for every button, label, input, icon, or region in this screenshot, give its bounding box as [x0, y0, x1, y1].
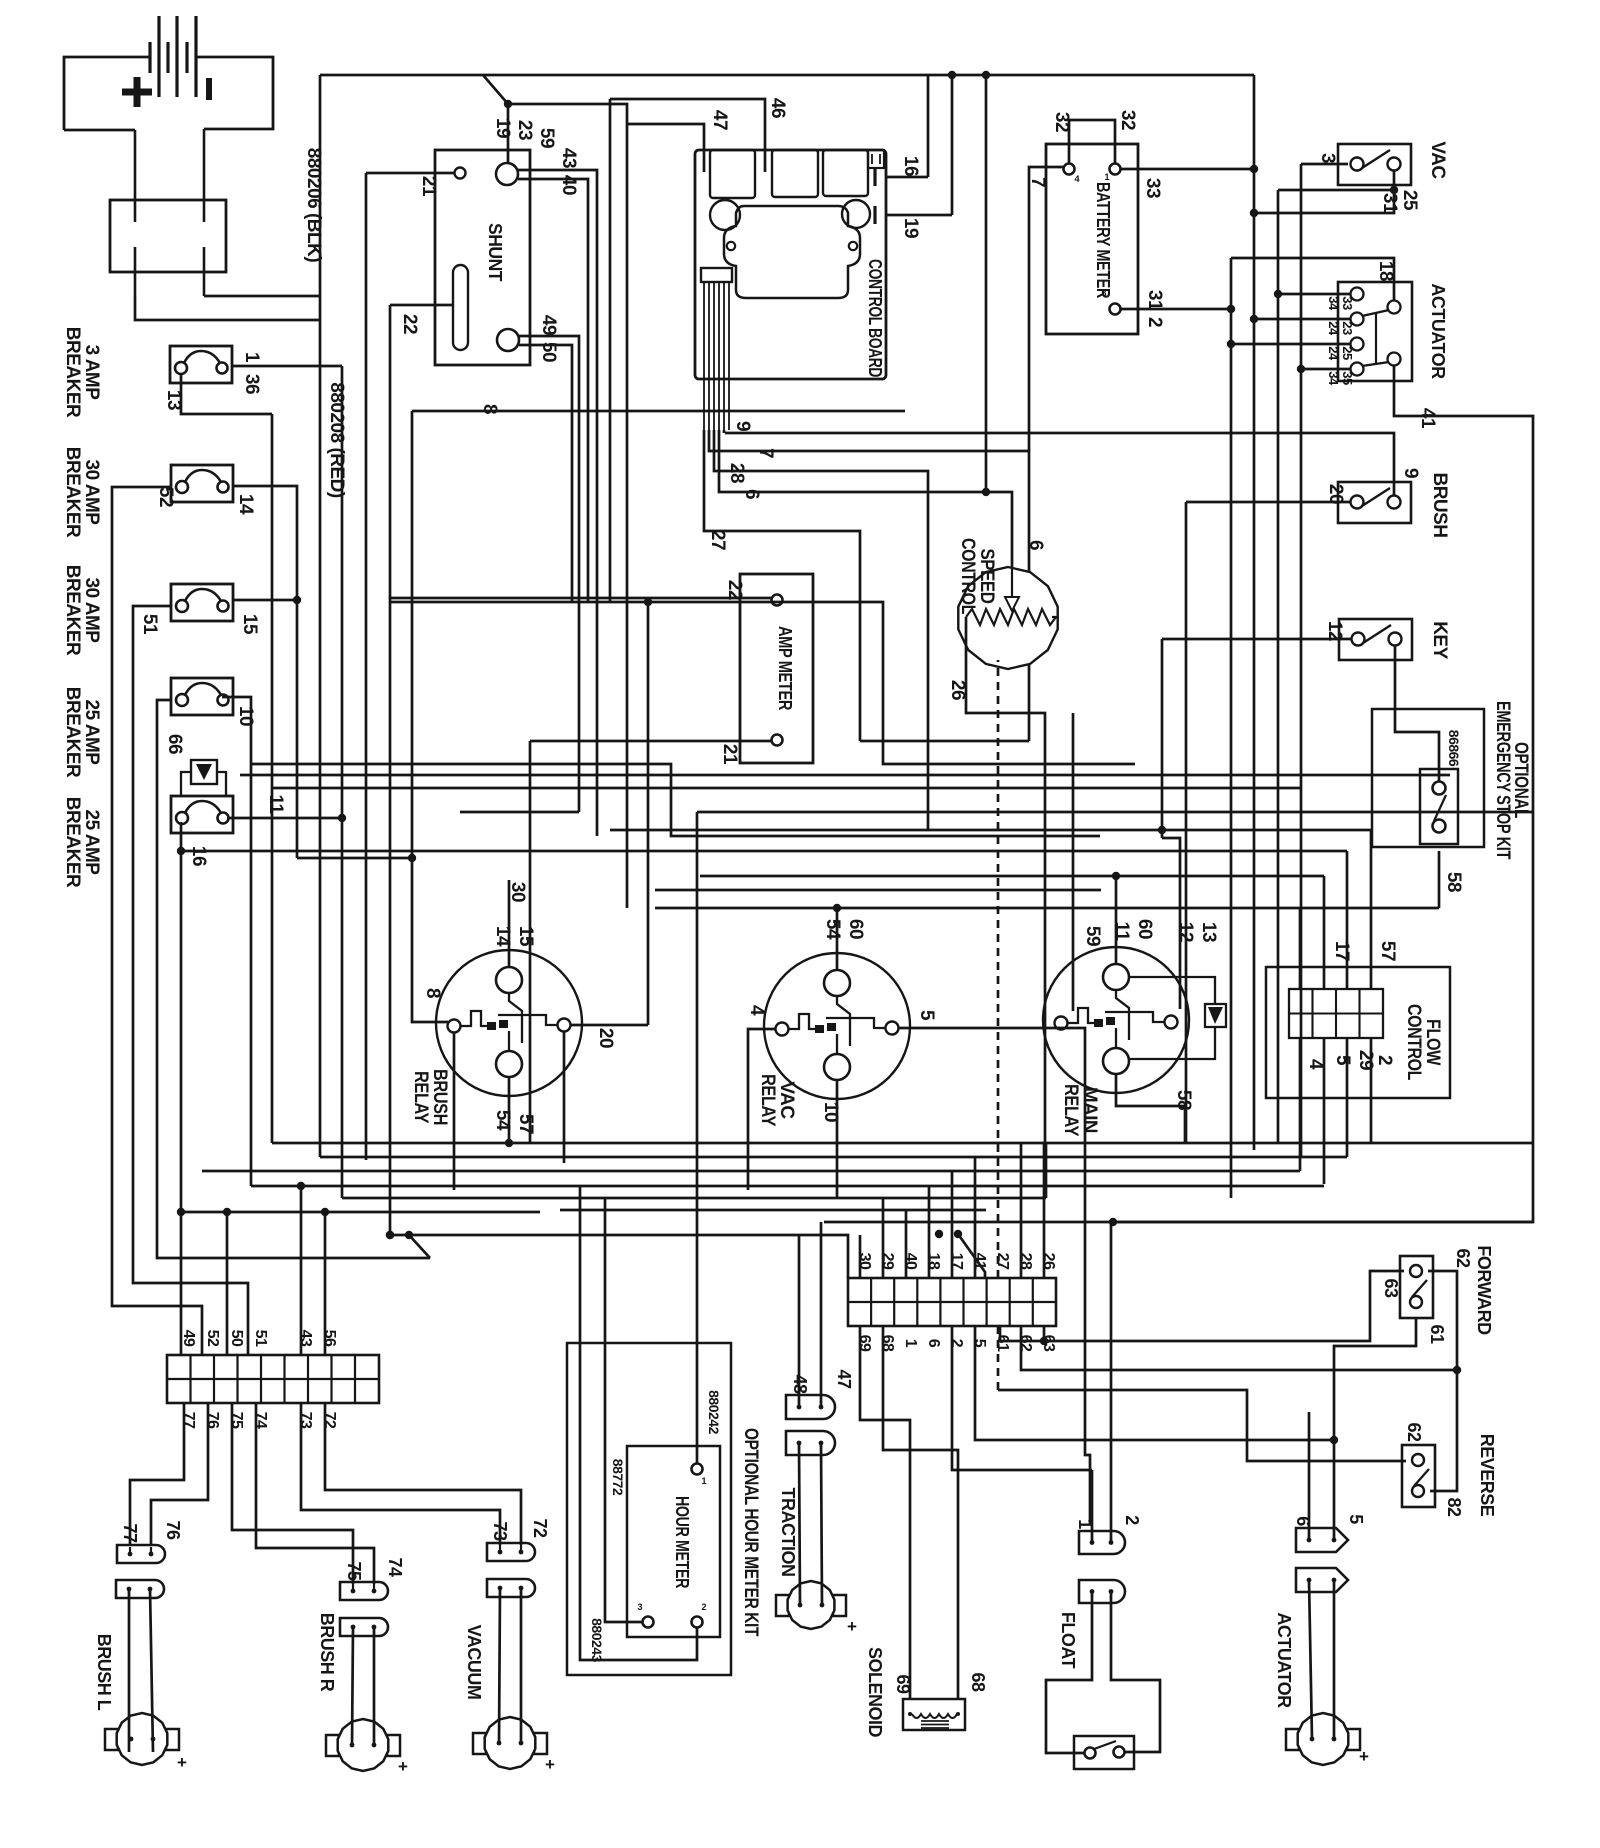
battery B1	[64, 16, 273, 130]
junction 50	[223, 1208, 231, 1216]
wire 59 into main relay left	[1072, 713, 1075, 1011]
svg-text:22: 22	[399, 314, 420, 334]
junction act1	[1274, 290, 1282, 298]
wire 19 riser	[951, 75, 954, 215]
wire 27 (ribbon)	[704, 430, 860, 741]
svg-text:3: 3	[637, 1602, 642, 1612]
label battery +	[122, 77, 152, 107]
float connector P5 upper	[1079, 1531, 1125, 1554]
svg-text:34: 34	[1326, 296, 1341, 311]
svg-text:23: 23	[1340, 321, 1355, 335]
actuator motor MT2	[1286, 1713, 1360, 1765]
wire row 921	[508, 920, 511, 923]
wire 43 feed	[300, 1186, 303, 1355]
wire 11 (breaker)	[227, 817, 342, 820]
wire TB2 col risers	[859, 1235, 862, 1278]
wire diag tb2	[958, 1234, 985, 1278]
brush L connector P1 lower	[116, 1580, 164, 1598]
wire 51 drop	[133, 606, 248, 1355]
wire 31 2	[1121, 308, 1231, 311]
wire 2 to float	[1110, 1222, 1113, 1542]
svg-text:SPEED: SPEED	[976, 549, 997, 604]
wire 43/40 from shunt	[518, 170, 597, 836]
wire 12/13 into main relay right	[1162, 838, 1180, 1009]
wire 50 feed	[226, 1212, 229, 1355]
wire actuator pin4	[1301, 368, 1350, 371]
svg-text:60: 60	[1134, 919, 1155, 939]
svg-text:27: 27	[994, 1253, 1011, 1270]
junction solenoid bus	[935, 1230, 943, 1238]
svg-text:54: 54	[822, 919, 843, 940]
svg-text:58: 58	[1443, 872, 1464, 892]
wire 15	[232, 599, 297, 602]
wire 47 feed	[820, 1222, 823, 1407]
wire row 1157	[320, 1156, 1347, 1159]
svg-text:59: 59	[1082, 926, 1103, 946]
svg-text:33: 33	[1142, 178, 1163, 198]
junction main top	[1112, 872, 1120, 880]
wire row 741 east	[860, 740, 1029, 743]
svg-text:68: 68	[968, 1672, 988, 1692]
junction 14/15	[293, 596, 301, 604]
svg-text:50: 50	[228, 1330, 245, 1347]
svg-text:HOUR METER: HOUR METER	[672, 1496, 692, 1588]
hour meter wires	[696, 1343, 699, 1463]
svg-text:+: +	[177, 1753, 187, 1772]
junction at shunt drop	[504, 100, 512, 108]
svg-text:BREAKER: BREAKER	[62, 447, 83, 538]
svg-text:MAIN: MAIN	[1079, 1087, 1100, 1133]
wire hour meter riser	[696, 812, 699, 1343]
wire trunk 880208 red	[319, 296, 322, 1157]
brush R motor MB2	[326, 1719, 400, 1771]
svg-text:47: 47	[834, 1369, 854, 1389]
wire row 1210	[560, 1209, 986, 1212]
wire 9 (ribbon)	[723, 430, 726, 433]
svg-text:BREAKER: BREAKER	[62, 687, 83, 778]
svg-text:FLOW: FLOW	[1422, 1019, 1443, 1065]
svg-text:21: 21	[719, 744, 740, 765]
wire trunk 1186	[1185, 502, 1188, 1143]
wire reverse feed 61net	[998, 1390, 1406, 1461]
wire row 830	[610, 829, 1371, 832]
svg-text:49: 49	[180, 1330, 197, 1347]
actuator connector P6 upper	[1296, 1528, 1348, 1552]
svg-text:24: 24	[1326, 346, 1341, 361]
svg-text:OPTIONAL HOUR METER KIT: OPTIONAL HOUR METER KIT	[740, 1428, 761, 1637]
wire trunk 13 net	[271, 414, 274, 1143]
wire diag 1235	[409, 1235, 430, 1258]
svg-text:11: 11	[265, 794, 286, 814]
circuit breaker CB4 25A	[171, 678, 233, 715]
svg-text:VAC: VAC	[1427, 141, 1448, 179]
svg-text:EMERGENCY STOP KIT: EMERGENCY STOP KIT	[1492, 701, 1513, 860]
battery meter M1	[1046, 144, 1138, 334]
svg-text:2: 2	[1374, 1055, 1395, 1065]
wire trunk 1231	[1230, 258, 1233, 1198]
wire 41	[1113, 366, 1533, 1222]
wire 40	[518, 179, 588, 602]
wire dashed 61 segment	[997, 1326, 1000, 1390]
wire 20 riser	[647, 602, 650, 1025]
svg-text:16: 16	[900, 156, 921, 176]
wire 8 into brush relay	[412, 411, 448, 1022]
svg-text:BRUSH R: BRUSH R	[317, 1613, 337, 1692]
svg-text:68: 68	[879, 1335, 896, 1352]
wire 1 to float	[1091, 1470, 1094, 1542]
terminal strip TB2	[848, 1278, 1056, 1326]
main relay K3	[1043, 947, 1226, 1093]
wire TB2 63 drop	[1043, 1326, 1046, 1341]
svg-text:+: +	[847, 1617, 857, 1636]
forward switch S5	[1400, 1256, 1433, 1318]
svg-text:1: 1	[902, 1339, 919, 1348]
terminal strip TB1	[167, 1355, 379, 1403]
svg-text:8: 8	[422, 988, 443, 998]
svg-text:51: 51	[252, 1330, 269, 1347]
brush L motor MB1	[105, 1713, 179, 1765]
svg-text:RELAY: RELAY	[1060, 1084, 1081, 1137]
svg-text:49: 49	[538, 315, 559, 335]
svg-text:61: 61	[994, 1335, 1011, 1352]
junction 62	[1453, 1366, 1461, 1374]
svg-text:21: 21	[418, 176, 439, 197]
wire 6 riser	[985, 75, 988, 492]
svg-text:25 AMP: 25 AMP	[81, 810, 102, 876]
float connector P5 lower	[1079, 1580, 1125, 1603]
wire battery negative to trunk 880206	[204, 295, 320, 298]
svg-text:19: 19	[900, 218, 921, 238]
svg-text:75: 75	[228, 1412, 245, 1429]
svg-text:BRUSH: BRUSH	[429, 1069, 450, 1125]
svg-text:BRUSH: BRUSH	[1429, 472, 1450, 537]
svg-text:25 AMP: 25 AMP	[81, 700, 102, 766]
wire row 764 jog	[251, 764, 1100, 836]
svg-text:BREAKER: BREAKER	[62, 565, 83, 656]
vacuum motor wires	[499, 1588, 500, 1743]
control board U1	[695, 150, 886, 379]
svg-text:6: 6	[741, 489, 762, 499]
wire trunk 3 net	[1300, 164, 1303, 1157]
speed control R2	[958, 567, 1057, 669]
svg-text:CONTROL: CONTROL	[1403, 1004, 1424, 1081]
traction motor wires	[799, 1443, 800, 1605]
svg-text:18: 18	[925, 1253, 942, 1270]
wire 16 drop	[180, 822, 183, 1355]
wire 7	[1029, 167, 1063, 741]
svg-text:25: 25	[1399, 190, 1420, 211]
wire 72	[325, 1403, 521, 1545]
svg-text:1: 1	[701, 1476, 706, 1486]
wire trunk 1073 upper	[1072, 712, 1075, 715]
svg-text:72: 72	[321, 1412, 338, 1429]
wire 30/15 into brush relay top	[508, 880, 511, 967]
svg-text:2: 2	[948, 1339, 965, 1348]
wire 73	[301, 1403, 500, 1545]
wire trunk 366	[365, 173, 368, 1160]
svg-text:29: 29	[879, 1253, 896, 1270]
brush switch S3	[1338, 482, 1411, 523]
actuator motor wires	[1309, 1580, 1312, 1739]
pin stub 16	[873, 168, 876, 186]
wire 63 to forward	[1000, 1271, 1404, 1341]
svg-text:KEY: KEY	[1429, 621, 1450, 659]
diode D1 across CB5	[181, 760, 226, 796]
wire row 1341	[999, 1326, 1002, 1341]
wire 5	[898, 1028, 1090, 1524]
svg-text:BATTERY METER: BATTERY METER	[1093, 182, 1113, 298]
wire row 1186	[251, 1185, 1324, 1188]
wire 5 feed	[975, 1326, 1334, 1540]
wire 74	[256, 1403, 374, 1584]
svg-text:59: 59	[536, 128, 557, 148]
flow control bottom wires	[1299, 1038, 1302, 1171]
actuator connector P6 lower	[1296, 1568, 1348, 1592]
svg-text:9: 9	[1400, 468, 1421, 478]
optional emergency stop kit	[1372, 709, 1484, 847]
wire row 775	[240, 774, 1450, 777]
junction act3	[1227, 340, 1235, 348]
wire 4	[748, 1029, 776, 1190]
svg-text:RELAY: RELAY	[410, 1071, 431, 1124]
svg-text:27: 27	[707, 530, 728, 550]
wire 49/50 from shunt	[519, 336, 579, 812]
junction 63	[1040, 1337, 1048, 1345]
svg-text:41: 41	[1417, 408, 1438, 429]
wire row 1143	[272, 1142, 1534, 1145]
svg-text:77: 77	[180, 1412, 197, 1429]
traction connector P7 upper	[786, 1395, 835, 1419]
svg-text:6: 6	[925, 1339, 942, 1348]
wire row 812 right	[697, 811, 1534, 814]
wire 62 link	[1428, 1271, 1457, 1491]
svg-text:880242: 880242	[706, 1390, 722, 1434]
junction solenoid bus2	[954, 1230, 962, 1238]
svg-text:13: 13	[1198, 922, 1219, 942]
brush R motor wires	[352, 1627, 353, 1745]
svg-text:76: 76	[204, 1412, 221, 1429]
svg-text:1: 1	[1104, 172, 1109, 182]
wire trunk 530	[529, 741, 532, 1143]
wire main relay top	[1115, 876, 1118, 964]
svg-text:8: 8	[479, 404, 500, 414]
pin stub 19	[873, 206, 876, 224]
svg-text:20: 20	[595, 1028, 616, 1048]
svg-text:+: +	[1359, 1747, 1369, 1766]
wire 20	[1186, 501, 1351, 504]
svg-text:40: 40	[902, 1253, 919, 1270]
wire 32 loop	[1069, 120, 1115, 163]
junction pin4/3	[1297, 365, 1305, 373]
vacuum connector P3 lower	[487, 1579, 535, 1597]
wire 6 feed	[1308, 1412, 1311, 1540]
svg-text:+: +	[545, 1755, 555, 1774]
wire 28 riser	[1020, 1143, 1023, 1278]
vacuum motor MV1	[473, 1717, 547, 1769]
svg-text:+: +	[398, 1757, 408, 1776]
brush L motor wires	[128, 1589, 131, 1752]
wire TB2 62 drop	[1021, 1326, 1457, 1370]
svg-text:SOLENOID: SOLENOID	[865, 1647, 885, 1738]
junction 43	[297, 1182, 305, 1190]
wire float feed 1	[952, 1326, 1092, 1470]
wire row 851	[181, 850, 1347, 853]
svg-text:43: 43	[558, 148, 579, 168]
svg-text:60: 60	[845, 919, 866, 939]
junction 56	[321, 1208, 329, 1216]
circuit breaker CB5 25A	[171, 796, 233, 833]
wire actuator pin3	[1231, 343, 1350, 346]
wire 48 feed	[798, 1235, 801, 1407]
wire 6 wiper	[986, 492, 1012, 567]
wire 13	[181, 374, 272, 414]
wire 22 from shunt slot	[390, 304, 453, 307]
wire 21 from shunt	[366, 172, 455, 175]
junction 31	[1250, 209, 1258, 217]
svg-text:61: 61	[1427, 1324, 1447, 1344]
junction 33	[1250, 165, 1258, 173]
junction 16 bus	[948, 71, 956, 79]
brush R connector P2 upper	[340, 1582, 388, 1600]
wire row 858	[297, 857, 412, 860]
svg-text:880243: 880243	[589, 1618, 605, 1662]
junction brush relay bottom	[505, 1139, 513, 1147]
battery connector J1	[110, 129, 226, 296]
svg-text:76: 76	[163, 1520, 183, 1540]
junction 6 bus	[982, 71, 990, 79]
wire shunt top right	[508, 104, 627, 908]
svg-text:5: 5	[1332, 1055, 1353, 1066]
svg-text:TRACTION: TRACTION	[778, 1488, 798, 1577]
svg-text:5: 5	[1346, 1514, 1366, 1524]
junction 61/5	[1330, 1436, 1338, 1444]
svg-text:73: 73	[297, 1412, 314, 1429]
svg-text:31: 31	[1379, 193, 1400, 214]
svg-text:VAC: VAC	[776, 1081, 797, 1119]
wire 66 drop	[157, 700, 430, 1258]
wire 6 (ribbon)	[719, 430, 986, 492]
wire 69	[860, 1326, 910, 1699]
wire 8 row	[412, 410, 905, 413]
svg-text:36: 36	[241, 374, 262, 394]
wire 21 to amp meter	[530, 740, 771, 743]
svg-text:BRUSH L: BRUSH L	[94, 1634, 114, 1711]
wire row 908	[655, 907, 1439, 910]
svg-text:4: 4	[1074, 174, 1079, 184]
circuit breaker CB2 30A	[171, 465, 233, 502]
svg-text:880208 (RED): 880208 (RED)	[326, 382, 347, 498]
junction 16 row851	[177, 847, 185, 855]
svg-text:3: 3	[1317, 153, 1338, 163]
svg-text:VACUUM: VACUUM	[464, 1625, 484, 1700]
svg-text:16: 16	[188, 846, 209, 866]
wire row 1235	[390, 1235, 848, 1278]
junction 1235	[405, 1231, 413, 1239]
wire 12 riser	[1161, 639, 1164, 838]
svg-text:BREAKER: BREAKER	[62, 797, 83, 888]
svg-text:57: 57	[1377, 941, 1398, 961]
junction 20	[644, 598, 652, 606]
circuit breaker CB1 3A	[170, 346, 232, 383]
vac switch S1	[1338, 144, 1411, 185]
junction 11/36	[338, 814, 346, 822]
svg-text:RELAY: RELAY	[757, 1074, 778, 1127]
wire trunk 880206	[319, 75, 322, 296]
junction float 2	[1109, 1218, 1117, 1226]
wire 25	[1278, 189, 1394, 192]
svg-text:24: 24	[1326, 321, 1341, 336]
wire top bus	[320, 74, 1254, 77]
svg-text:56: 56	[321, 1330, 338, 1347]
svg-text:2: 2	[701, 1602, 706, 1612]
svg-text:52: 52	[204, 1330, 221, 1347]
wire 36 to trunk	[232, 365, 342, 368]
traction motor MT1	[776, 1581, 846, 1629]
wire vac relay top	[836, 908, 839, 970]
junction 16/49	[177, 1208, 185, 1216]
wire 10	[222, 697, 251, 1186]
wire dashed 27 riser	[997, 660, 1000, 1278]
junction 8/858	[408, 854, 416, 862]
wire 12	[1162, 638, 1352, 641]
wire vac relay bottom	[836, 1080, 839, 1198]
amp meter M2	[740, 574, 813, 763]
optional hour meter kit	[567, 1343, 731, 1675]
svg-text:3: 3	[1101, 288, 1106, 298]
svg-text:43: 43	[297, 1330, 314, 1347]
svg-text:17: 17	[948, 1253, 965, 1270]
wire trunk 1278	[1277, 190, 1280, 1143]
svg-text:69: 69	[856, 1335, 873, 1352]
vac relay K2	[764, 953, 910, 1099]
junction vac top	[833, 904, 841, 912]
svg-text:3 AMP: 3 AMP	[81, 345, 102, 401]
wire row 876	[700, 875, 1324, 878]
wire row 620	[365, 619, 368, 622]
wire 18	[1231, 258, 1394, 300]
wire top bus right corner	[1253, 75, 1256, 213]
svg-text:34: 34	[1326, 371, 1341, 386]
solenoid L1	[903, 1699, 965, 1730]
junction 6	[982, 488, 990, 496]
svg-text:57: 57	[515, 1114, 536, 1134]
wire 7 (ribbon)	[709, 430, 1029, 451]
wire 50	[519, 345, 572, 602]
svg-text:1: 1	[241, 352, 262, 363]
svg-text:86866: 86866	[1446, 730, 1462, 767]
svg-text:SHUNT: SHUNT	[485, 223, 505, 281]
svg-text:62: 62	[1404, 1422, 1424, 1442]
brush R connector P2 lower	[340, 1618, 388, 1636]
wire row 1171	[202, 1170, 1300, 1173]
circuit breaker CB3 30A	[171, 584, 233, 621]
junction 1235b	[386, 1231, 394, 1239]
junction row830	[1158, 826, 1166, 834]
wire 52 drop	[112, 487, 202, 1355]
wire 77	[130, 1403, 184, 1546]
svg-text:26: 26	[1040, 1253, 1057, 1270]
svg-text:29: 29	[1355, 1050, 1376, 1070]
svg-text:51: 51	[139, 614, 160, 635]
wire 16 riser	[927, 75, 930, 177]
wire brush relay left leg	[453, 1032, 456, 1190]
wire row 812 left	[460, 811, 579, 814]
ribbon cable to control board	[701, 268, 732, 430]
svg-text:5: 5	[916, 1010, 937, 1021]
flow control top wires	[1299, 908, 1302, 989]
svg-text:9: 9	[732, 421, 753, 431]
wire 26 riser	[1043, 1143, 1046, 1278]
